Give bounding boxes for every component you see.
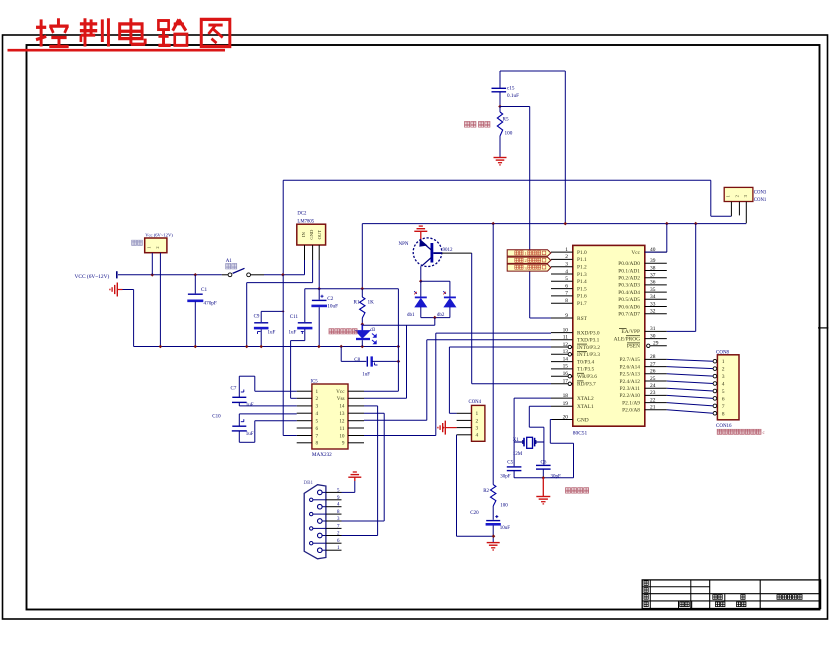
svg-text:28: 28	[650, 354, 656, 360]
wire raw bus	[283, 180, 711, 274]
capacitor C6	[536, 460, 561, 479]
svg-text:17: 17	[563, 379, 569, 385]
wire gnd stub to bus	[123, 290, 134, 347]
wire P2.3 to CON8-5	[667, 388, 713, 391]
svg-text:8: 8	[565, 298, 568, 304]
svg-text:T0/P3.4: T0/P3.4	[577, 359, 595, 365]
svg-text:6: 6	[565, 283, 568, 289]
svg-text:NPN: NPN	[399, 242, 409, 247]
svg-text:ALE/PROG: ALE/PROG	[614, 336, 640, 342]
svg-text:CON1: CON1	[754, 198, 767, 203]
svg-text:P2.7/A15: P2.7/A15	[619, 357, 640, 363]
svg-text:2: 2	[525, 258, 527, 263]
svg-text:1: 1	[316, 389, 319, 395]
svg-text:P1.6: P1.6	[577, 294, 587, 300]
ic IC5 MAX232	[297, 384, 364, 449]
svg-text:30pF: 30pF	[551, 474, 562, 479]
wire P2.4 to CON8-4	[667, 381, 713, 384]
svg-text:IC5: IC5	[311, 380, 319, 385]
svg-text:1uF: 1uF	[246, 432, 254, 437]
svg-text:C5: C5	[507, 460, 513, 465]
wire raw to max232 pin7	[283, 275, 297, 436]
wire diode bottoms	[421, 317, 450, 319]
wire C9 tap	[261, 311, 283, 322]
svg-text:DB1: DB1	[304, 481, 314, 486]
svg-text:14: 14	[563, 356, 569, 362]
wire GND bus	[134, 346, 399, 348]
svg-text:C7: C7	[231, 386, 237, 391]
annotation 晶振电路	[566, 488, 589, 493]
node gndbus-C1	[194, 345, 198, 349]
svg-text:27: 27	[650, 361, 656, 367]
svg-text:P0.5/AD5: P0.5/AD5	[618, 297, 640, 303]
svg-text:A1: A1	[226, 259, 233, 264]
wire max232-12 to TXD	[364, 340, 551, 421]
svg-text:25: 25	[650, 376, 656, 382]
svg-text:1: 1	[722, 359, 725, 365]
svg-text:36: 36	[650, 280, 656, 286]
svg-text:1uF: 1uF	[268, 330, 276, 335]
node gndbus-LED	[361, 345, 365, 349]
pin circle INT0	[568, 345, 571, 348]
svg-text:P2.6/A14: P2.6/A14	[619, 364, 640, 370]
label db2	[437, 313, 445, 318]
svg-text:26: 26	[650, 369, 656, 375]
label Vcc (6V~12V)	[145, 233, 173, 238]
svg-text:5: 5	[565, 276, 568, 282]
svg-text:12M: 12M	[513, 452, 523, 457]
connector CON8	[713, 355, 739, 420]
svg-text:RD/P3.7: RD/P3.7	[577, 382, 596, 388]
label CON1	[754, 198, 767, 203]
node bus-reset	[564, 222, 568, 226]
connector CON4	[457, 405, 485, 441]
node C8-right	[397, 360, 401, 364]
svg-text:c15: c15	[507, 86, 515, 92]
svg-text:GND: GND	[309, 229, 314, 240]
svg-text:1K: 1K	[368, 300, 375, 306]
node rail-R1	[361, 287, 365, 291]
svg-text:8: 8	[316, 441, 319, 447]
capacitor c15	[492, 86, 520, 106]
svg-text:P0.3/AD3: P0.3/AD3	[618, 283, 640, 289]
node rail-C1	[194, 273, 198, 277]
wire rail b	[264, 274, 305, 276]
svg-text:100: 100	[500, 503, 508, 508]
capacitor C9	[254, 315, 276, 347]
capacitor C8	[354, 356, 398, 377]
capacitor C20	[470, 506, 510, 542]
svg-text:2: 2	[722, 367, 725, 373]
svg-text:C11: C11	[290, 315, 299, 320]
svg-text:6: 6	[316, 426, 319, 432]
svg-text:10: 10	[339, 433, 345, 439]
svg-text:12: 12	[563, 342, 569, 348]
title block grid	[642, 580, 820, 609]
svg-text:RST: RST	[577, 316, 588, 322]
svg-text:Vcc: Vcc	[336, 389, 345, 395]
svg-text:Vss: Vss	[337, 396, 345, 402]
svg-text:1: 1	[476, 411, 479, 417]
svg-text:INT0/P3.2: INT0/P3.2	[577, 345, 600, 351]
wire crystal gnd rail	[514, 420, 573, 478]
label DC2	[297, 212, 307, 217]
wire P2.0 to CON8-8	[667, 410, 713, 414]
svg-text:1uF: 1uF	[362, 372, 370, 377]
svg-text:C10: C10	[212, 414, 221, 419]
svg-text:35: 35	[650, 287, 656, 293]
svg-text:2: 2	[476, 418, 479, 424]
power bar above transistor (red)	[414, 226, 427, 241]
svg-text:d3: d3	[370, 328, 376, 333]
wire P2.7 to CON8-1	[667, 359, 713, 361]
svg-text:3: 3	[565, 262, 568, 268]
node C20-CON4	[492, 534, 496, 538]
ic U1 80C51 body+pins	[551, 245, 667, 426]
title block row labels	[644, 581, 648, 607]
svg-text:7: 7	[316, 433, 319, 439]
pin circle RD	[568, 382, 571, 385]
svg-text:P1.7: P1.7	[577, 301, 587, 307]
svg-text:R1: R1	[354, 300, 360, 306]
wire +5V rail	[305, 288, 399, 290]
wire P2.1 to CON8-7	[667, 403, 713, 406]
net tag 电机3控制口	[507, 264, 551, 271]
transistor Q1 9012	[413, 238, 442, 267]
svg-text:2: 2	[316, 396, 319, 402]
svg-text:4: 4	[476, 433, 479, 439]
wire XTAL1 net	[529, 406, 551, 465]
node gndbus-7805gnd	[245, 345, 249, 349]
svg-text:XTAL1: XTAL1	[577, 404, 594, 410]
node reset junction	[498, 105, 530, 109]
wire raw bus to CON3	[711, 180, 732, 216]
pin CON3-2	[738, 202, 740, 216]
label LM7805	[297, 219, 314, 224]
svg-text:9012: 9012	[443, 248, 454, 253]
wire reset right vertical	[564, 71, 566, 224]
svg-text:8: 8	[722, 411, 725, 417]
wire C8 left	[341, 347, 366, 362]
svg-text:Vcc (6V~12V): Vcc (6V~12V)	[145, 233, 173, 238]
net tag 电机1控制口	[507, 250, 551, 256]
title block cell texts	[680, 595, 802, 607]
svg-text:P1.0: P1.0	[577, 250, 587, 256]
svg-text:C2: C2	[327, 296, 333, 302]
svg-text:11: 11	[563, 335, 568, 341]
ground DB9 (red)	[348, 472, 361, 481]
node collector	[419, 279, 423, 283]
svg-text:10: 10	[563, 327, 569, 333]
svg-text:5: 5	[722, 389, 725, 395]
ic U1 inner pin labels	[577, 250, 641, 423]
svg-text:1: 1	[525, 251, 527, 256]
wire CON4-4 to C20 node	[457, 435, 494, 536]
svg-text:100: 100	[505, 131, 513, 137]
svg-text:16: 16	[563, 371, 569, 377]
svg-text:13: 13	[563, 349, 569, 355]
regulator DC2 LM7805	[297, 224, 326, 245]
svg-text:2: 2	[155, 246, 160, 248]
svg-text:C20: C20	[470, 511, 479, 516]
capacitor C1	[187, 275, 217, 347]
svg-text:1uF: 1uF	[289, 330, 297, 335]
wire XTAL2 net	[514, 398, 551, 466]
svg-text:21: 21	[650, 405, 656, 411]
svg-text:30: 30	[650, 333, 656, 339]
label 开关	[226, 264, 237, 269]
title text 控制电路图 (red)	[8, 18, 230, 50]
svg-text:13: 13	[339, 411, 345, 417]
svg-text:4: 4	[565, 269, 568, 275]
svg-text:DC2: DC2	[297, 212, 307, 217]
svg-text:1: 1	[565, 247, 568, 253]
capacitor C5	[500, 460, 521, 479]
connector 电源 (power)	[145, 238, 167, 253]
wire max232-14 to DB9-2	[342, 406, 378, 536]
svg-text:3: 3	[316, 404, 319, 410]
wire max232-10 to RXD	[364, 333, 551, 435]
node gndbus-C9	[259, 345, 263, 349]
svg-text:LM7805: LM7805	[297, 219, 314, 224]
node rail-power	[151, 273, 155, 277]
svg-text:34: 34	[650, 294, 656, 300]
svg-text:P0.2/AD2: P0.2/AD2	[618, 276, 640, 282]
svg-text:PSEN: PSEN	[627, 344, 640, 350]
svg-text:29: 29	[653, 341, 659, 347]
annotation 发光二极管	[329, 329, 357, 334]
svg-text:7: 7	[565, 291, 568, 297]
node gndbus-C8	[339, 345, 343, 349]
label VCC (6V~12V)	[75, 273, 110, 280]
svg-text:38: 38	[650, 265, 656, 271]
node rail-dropdown	[281, 273, 285, 277]
port terminal	[116, 271, 118, 278]
label db1	[407, 313, 415, 318]
label CON4	[469, 400, 482, 405]
svg-text:24: 24	[650, 383, 656, 389]
svg-text:P2.5/A13: P2.5/A13	[619, 372, 640, 378]
wire input rail a	[118, 274, 222, 276]
svg-text:5: 5	[316, 419, 319, 425]
annotation 红外遥控控制信号	[717, 429, 765, 436]
svg-text:P0.4/AD4: P0.4/AD4	[618, 290, 640, 296]
pin circle WR	[568, 375, 571, 378]
ground CON4 (red, sideways)	[438, 421, 457, 435]
pin 7805-OUT	[318, 245, 320, 289]
pin 7805-GND	[312, 245, 314, 283]
svg-text:INT1/P3.3: INT1/P3.3	[577, 352, 600, 358]
svg-text:P0.0/AD0: P0.0/AD0	[618, 261, 640, 267]
label A1	[226, 259, 233, 264]
wire diode join to LED node	[362, 318, 435, 326]
wire bus to +5V rail	[361, 224, 363, 289]
svg-text:P1.3: P1.3	[577, 272, 587, 278]
label 12M	[513, 452, 523, 457]
label X1	[513, 438, 520, 443]
label IC5	[311, 380, 319, 385]
net tag 电机2控制口	[507, 257, 551, 263]
wire max232-13 to DB9-3	[342, 413, 385, 521]
ground input (red, sideways)	[110, 283, 123, 297]
svg-text:WR/P3.6: WR/P3.6	[577, 374, 597, 380]
svg-text:P1.2: P1.2	[577, 265, 587, 271]
label d3	[370, 328, 376, 333]
connector CON3	[724, 187, 753, 201]
wire DB9-5 to ground	[342, 481, 355, 492]
diode db2	[443, 291, 456, 317]
svg-text:P0.1/AD1: P0.1/AD1	[618, 268, 640, 274]
pin power-1	[151, 253, 153, 275]
svg-text:OUT: OUT	[317, 230, 322, 240]
svg-text:P2.3/A11: P2.3/A11	[620, 386, 641, 392]
svg-text:P0.6/AD6: P0.6/AD6	[618, 304, 640, 310]
node bus-pin40	[665, 222, 669, 226]
crystal X1	[514, 437, 544, 448]
node C6-gnd	[542, 476, 546, 480]
wire P2.2 to CON8-6	[667, 395, 713, 398]
node R1-LED	[361, 323, 365, 327]
svg-text:37: 37	[650, 273, 656, 279]
svg-text:P2.4/A12: P2.4/A12	[619, 379, 640, 385]
node gndbus-power2	[159, 345, 163, 349]
pin circle PSEN	[647, 344, 650, 347]
svg-text:3: 3	[722, 374, 725, 380]
svg-text:R5: R5	[503, 117, 509, 123]
svg-text:39: 39	[650, 258, 656, 264]
svg-text:33: 33	[650, 301, 656, 307]
svg-text:11: 11	[340, 426, 345, 432]
svg-text:T1/P3.5: T1/P3.5	[577, 367, 595, 373]
pin circle INT1	[568, 353, 571, 356]
svg-text:CON16: CON16	[716, 424, 732, 429]
diode db1	[414, 291, 427, 317]
label 电源	[132, 240, 143, 245]
svg-text:CON8: CON8	[716, 351, 730, 356]
ground reset (red)	[494, 158, 507, 165]
label CON8	[716, 351, 730, 356]
wire 7805 gnd link	[247, 283, 313, 347]
svg-text:Vcc: Vcc	[631, 250, 640, 256]
label NPN	[399, 242, 409, 247]
capacitor C7	[231, 376, 297, 408]
svg-text:12: 12	[339, 419, 345, 425]
svg-text:P2.1/A9: P2.1/A9	[622, 400, 640, 406]
wire P2.5 to CON8-3	[667, 374, 713, 376]
svg-text:1: 1	[147, 246, 152, 248]
resistor R2	[483, 485, 508, 509]
svg-text:19: 19	[563, 401, 569, 407]
svg-text:MAX232: MAX232	[312, 452, 332, 458]
svg-text:RXD/P3.0: RXD/P3.0	[577, 330, 600, 336]
svg-text:80C51: 80C51	[573, 431, 588, 437]
wire RST net	[530, 107, 551, 319]
svg-text:P1.4: P1.4	[577, 279, 587, 285]
svg-text:10uF: 10uF	[500, 526, 511, 531]
svg-text:0.1uF: 0.1uF	[507, 93, 519, 99]
node gndbus-railend	[397, 345, 401, 349]
svg-text:30pF: 30pF	[500, 474, 511, 479]
node diode-join	[433, 316, 437, 320]
svg-text:P1.5: P1.5	[577, 286, 587, 292]
svg-text:C9: C9	[254, 315, 260, 320]
svg-text:31: 31	[650, 326, 656, 332]
node out-rail	[317, 287, 321, 291]
wire pin40 Vcc	[645, 224, 667, 253]
wire P2.6 to CON8-2	[667, 367, 713, 369]
switch A1	[222, 268, 264, 276]
svg-text:32: 32	[650, 309, 656, 315]
svg-text:X1: X1	[513, 438, 520, 443]
ground C20 (red)	[487, 543, 500, 550]
svg-text:1uF: 1uF	[246, 403, 254, 408]
svg-text:2: 2	[565, 254, 568, 260]
svg-text:470pF: 470pF	[204, 300, 217, 306]
svg-text:IN: IN	[301, 231, 306, 237]
wire C11 to max232 pin2	[291, 329, 305, 398]
svg-text:P2.2/A10: P2.2/A10	[619, 393, 640, 399]
node bus-EA	[694, 222, 698, 226]
svg-text:P1.1: P1.1	[577, 257, 587, 263]
label CON16	[716, 424, 732, 429]
wire Q1 collector	[420, 266, 422, 281]
svg-text:14: 14	[339, 404, 345, 410]
svg-text:VCC (6V~12V): VCC (6V~12V)	[75, 273, 110, 280]
svg-text:6: 6	[722, 396, 725, 402]
capacitor C2	[311, 289, 338, 347]
svg-text:CON4: CON4	[469, 400, 482, 405]
svg-text:9: 9	[342, 441, 345, 447]
right border centering mark	[818, 327, 828, 329]
svg-text:23: 23	[650, 390, 656, 396]
pin power-2 to gnd bus	[159, 253, 161, 347]
label 80C51	[573, 431, 588, 437]
svg-text:GND: GND	[577, 417, 589, 423]
capacitor C11	[289, 289, 313, 336]
svg-text:C6: C6	[541, 460, 547, 465]
node gndbus-C2	[317, 345, 321, 349]
connector DB1 (DB9)	[304, 485, 341, 559]
wire diode top link	[421, 281, 450, 297]
svg-text:20: 20	[563, 414, 569, 420]
svg-text:22: 22	[650, 397, 656, 403]
svg-text:18: 18	[563, 393, 569, 399]
label CON3	[754, 191, 767, 196]
node C9 tap	[282, 310, 285, 313]
label 9012	[443, 248, 454, 253]
svg-text:3: 3	[476, 426, 479, 432]
wire +5 to R2	[492, 224, 494, 485]
svg-text:CON3: CON3	[754, 191, 767, 196]
capacitor C10	[212, 414, 296, 442]
label MAX232	[312, 452, 332, 458]
svg-text:XTAL2: XTAL2	[577, 396, 594, 402]
svg-text:P2.0/A8: P2.0/A8	[622, 408, 640, 414]
svg-text:P0.7/AD7: P0.7/AD7	[618, 312, 640, 318]
wire INT0 to CON4-1	[449, 347, 551, 413]
wire Q1 base to pin17	[433, 253, 551, 384]
svg-text:15: 15	[563, 364, 569, 370]
svg-text:4: 4	[316, 411, 319, 417]
svg-text:7: 7	[722, 404, 725, 410]
node bus-R2	[491, 222, 495, 226]
svg-text:db1: db1	[407, 313, 415, 318]
resistor R5	[497, 107, 512, 158]
ground crystal (red)	[536, 478, 550, 504]
svg-text:TXD/P3.1: TXD/P3.1	[577, 338, 600, 344]
wire reset top	[500, 71, 565, 88]
label DB1	[304, 481, 314, 486]
